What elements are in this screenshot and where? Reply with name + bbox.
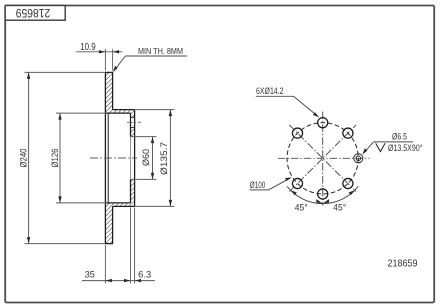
- svg-text:218659: 218659: [16, 6, 51, 18]
- diagonal centre line 135: [289, 125, 356, 192]
- hatched hat band bottom: [105, 203, 134, 207]
- 6.3 arrow: [135, 279, 142, 282]
- svg-text:Ø100: Ø100: [250, 180, 265, 190]
- middle projection line: [107, 113, 109, 203]
- o135.7 dim line: [169, 110, 171, 207]
- 35/6.3 extension middle: [130, 208, 132, 284]
- 45 degree dimension arc left: [287, 186, 323, 203]
- bolt circle o100: [287, 123, 358, 194]
- flange left face through bore (grey): [130, 137, 132, 180]
- bolt hole bottom: [318, 189, 328, 199]
- o6.5 underline: [374, 141, 414, 143]
- svg-text:45°: 45°: [295, 203, 308, 213]
- 35 arrow right: [124, 279, 131, 282]
- 6Xo14.2 underline: [256, 95, 294, 97]
- 6.3 extension right: [134, 208, 136, 284]
- o126 extension bottom: [56, 202, 107, 204]
- bolt hole 315: [343, 178, 353, 188]
- dimension o126: [56, 113, 107, 203]
- o135.7 arrows: [169, 110, 172, 117]
- svg-text:Ø126: Ø126: [50, 149, 61, 168]
- small hole o6.5 inner: [356, 156, 361, 161]
- flange right face: [134, 110, 136, 207]
- title box top-left: [5, 6, 65, 21]
- bolt hole lower edge: [131, 126, 135, 128]
- o240 arrows: [27, 72, 30, 79]
- o135.7 extension top: [135, 109, 174, 111]
- o240 extension top: [25, 71, 105, 73]
- dimension 35 / 6.3: [82, 208, 155, 284]
- o100 underline: [250, 189, 269, 191]
- hat wall outer top: [113, 109, 135, 111]
- dimension o60: [131, 137, 157, 180]
- svg-text:45°: 45°: [333, 203, 346, 213]
- arc arrows at bottom: [316, 199, 323, 204]
- bolt hole top: [318, 118, 328, 128]
- svg-text:218659: 218659: [388, 258, 418, 270]
- dimension 10.9: [76, 49, 122, 71]
- svg-text:MIN TH. 8MM: MIN TH. 8MM: [138, 47, 183, 56]
- svg-text:Ø240: Ø240: [19, 149, 30, 168]
- 10.9 extension right: [112, 49, 114, 71]
- o100 leader: [269, 178, 291, 190]
- dimension o135.7: [135, 110, 174, 207]
- 10.9 dim line: [76, 51, 122, 53]
- o60 extension bottom: [131, 178, 157, 180]
- o60 extension top: [131, 136, 157, 138]
- hat wall outer bottom: [113, 205, 135, 207]
- disc outer face (left): [104, 72, 106, 244]
- o60 arrows: [151, 137, 154, 144]
- 10.9 arrow left: [99, 50, 106, 53]
- o126 arrows: [58, 113, 61, 120]
- bolt hole 225: [292, 178, 302, 188]
- MIN TH arrow: [113, 66, 118, 72]
- bolt hole upper edge: [131, 116, 135, 118]
- o6.5 arrow: [362, 148, 367, 154]
- 35 arrow left: [105, 279, 112, 282]
- svg-text:Ø135.7: Ø135.7: [159, 142, 170, 175]
- hatched flange top segment A: [131, 113, 135, 117]
- o126 dim line: [59, 113, 61, 203]
- diagonal centre line 45: [289, 125, 356, 192]
- svg-text:35: 35: [85, 270, 95, 280]
- svg-text:Ø13.5X90°: Ø13.5X90°: [388, 143, 423, 153]
- disc bottom edge: [105, 243, 113, 245]
- horizontal centre line: [278, 157, 370, 159]
- hatched ring top: [105, 72, 112, 109]
- hatched ring bottom: [105, 206, 112, 243]
- MIN TH underline: [125, 55, 187, 57]
- o135.7 extension bottom: [135, 205, 174, 207]
- hatched flange bottom segment: [131, 179, 135, 203]
- flange left face lower: [130, 179, 132, 203]
- arc arrow at 315: [349, 190, 355, 195]
- countersink symbol: [376, 143, 385, 151]
- small hole o6.5 outer: [354, 154, 363, 163]
- o240 extension bottom: [25, 243, 105, 245]
- o240 dim line: [28, 72, 30, 243]
- 10.9 arrow right: [113, 50, 120, 53]
- svg-text:Ø60: Ø60: [141, 149, 152, 166]
- o126 extension top: [56, 112, 107, 114]
- ring inner face bottom: [112, 206, 114, 243]
- 10.9 extension left: [104, 49, 106, 71]
- MIN TH leader: [114, 56, 125, 71]
- hatched hat band top: [105, 110, 134, 114]
- 45 degree dimension arc right: [323, 186, 359, 203]
- o60 dim line: [152, 137, 154, 180]
- svg-text:6XØ14.2: 6XØ14.2: [256, 86, 284, 96]
- disc top edge: [105, 71, 113, 73]
- bolt hole 135: [292, 128, 302, 138]
- hatched flange top segment B: [131, 127, 135, 136]
- 35 dim line: [82, 280, 155, 282]
- flange left face upper: [130, 113, 132, 137]
- hat wall inner bottom (o126): [105, 202, 130, 204]
- dimension o240: [25, 72, 105, 243]
- section outline: [105, 72, 135, 244]
- section centre line: [90, 157, 137, 159]
- 6Xo14.2 arrow: [313, 112, 319, 117]
- o100 arrow: [285, 177, 292, 181]
- hat wall inner top (o126): [105, 112, 130, 114]
- o6.5 leader: [364, 142, 374, 153]
- svg-text:6.3: 6.3: [138, 270, 151, 280]
- vertical centre line: [322, 112, 324, 206]
- svg-text:10.9: 10.9: [80, 42, 96, 53]
- bolt hole centre line in section: [127, 121, 141, 123]
- svg-text:Ø6.5: Ø6.5: [392, 132, 407, 142]
- 6Xo14.2 leader: [294, 96, 318, 116]
- 35 extension left: [104, 245, 106, 284]
- arc arrow at 225: [291, 190, 297, 195]
- bolt hole 45: [343, 128, 353, 138]
- ring inner face top: [112, 72, 114, 109]
